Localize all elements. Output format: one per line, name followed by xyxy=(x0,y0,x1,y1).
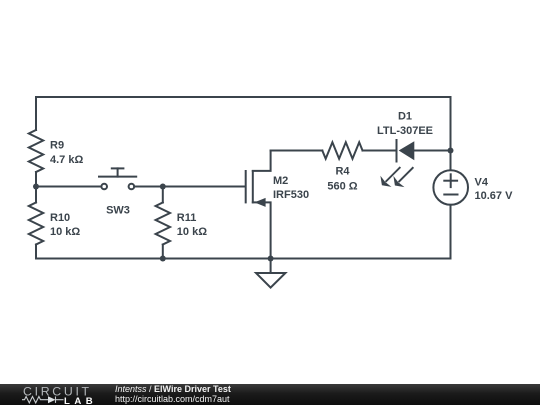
svg-text:4.7 kΩ: 4.7 kΩ xyxy=(50,154,83,166)
wire SW3 right to node B xyxy=(134,186,163,188)
resistor R9 xyxy=(29,130,43,172)
node B junction dot xyxy=(160,184,166,190)
label V4 value xyxy=(475,176,514,202)
svg-text:10 kΩ: 10 kΩ xyxy=(177,226,207,238)
wire drain to R4 xyxy=(271,150,323,152)
svg-text:10.67 V: 10.67 V xyxy=(475,190,514,202)
wire right rail upper xyxy=(450,97,452,170)
footer title text xyxy=(115,385,231,404)
svg-text:10 kΩ: 10 kΩ xyxy=(50,226,80,238)
svg-text:R10: R10 xyxy=(50,212,70,224)
CircuitLab logo xyxy=(22,385,97,406)
voltage source V4 xyxy=(433,170,468,205)
svg-text:LTL-307EE: LTL-307EE xyxy=(377,125,433,137)
ground xyxy=(256,273,285,288)
wire D1 to right rail xyxy=(414,150,450,152)
wire top rail xyxy=(36,96,451,98)
resistor R11 xyxy=(156,203,170,245)
label R10 value xyxy=(50,212,80,238)
svg-text:560 Ω: 560 Ω xyxy=(327,181,357,193)
label R9 value xyxy=(50,140,83,166)
resistor R10 xyxy=(29,203,43,245)
label D1 value xyxy=(377,111,433,137)
label R11 value xyxy=(177,212,207,238)
wire ground stub xyxy=(270,259,272,274)
node M2 source junction dot xyxy=(268,256,274,262)
svg-text:R4: R4 xyxy=(335,165,350,177)
wire right rail lower xyxy=(450,205,452,259)
svg-text:SW3: SW3 xyxy=(106,204,130,216)
wire node B to MOSFET gate xyxy=(163,186,245,188)
wire bottom rail xyxy=(36,258,451,260)
wire R10 to bottom rail xyxy=(35,245,37,259)
svg-text:V4: V4 xyxy=(475,176,489,188)
wire node B to R11 xyxy=(162,187,164,203)
wire node A to R10 xyxy=(35,187,37,203)
label R4 value xyxy=(327,165,357,192)
label M2 value xyxy=(273,175,309,201)
wire node A to SW3 left xyxy=(36,186,102,188)
node D1 right junction dot xyxy=(448,148,454,154)
wire R4 to D1 xyxy=(363,150,397,152)
svg-text:D1: D1 xyxy=(398,111,412,123)
resistor R4 xyxy=(322,142,362,158)
node A junction dot xyxy=(33,184,39,190)
switch SW3 xyxy=(99,168,136,189)
transistor M2 xyxy=(246,151,271,259)
svg-text:R11: R11 xyxy=(177,212,197,224)
svg-text:R9: R9 xyxy=(50,140,64,152)
diode D1 LED xyxy=(380,140,414,187)
wire left rail upper xyxy=(35,97,37,130)
wire R11 to bottom rail xyxy=(162,245,164,259)
footer bar xyxy=(0,384,540,405)
svg-text:M2: M2 xyxy=(273,175,288,187)
node R11 bottom junction dot xyxy=(160,256,166,262)
label SW3 xyxy=(106,204,130,216)
svg-text:IRF530: IRF530 xyxy=(273,189,309,201)
wire R9 to node A xyxy=(35,172,37,187)
